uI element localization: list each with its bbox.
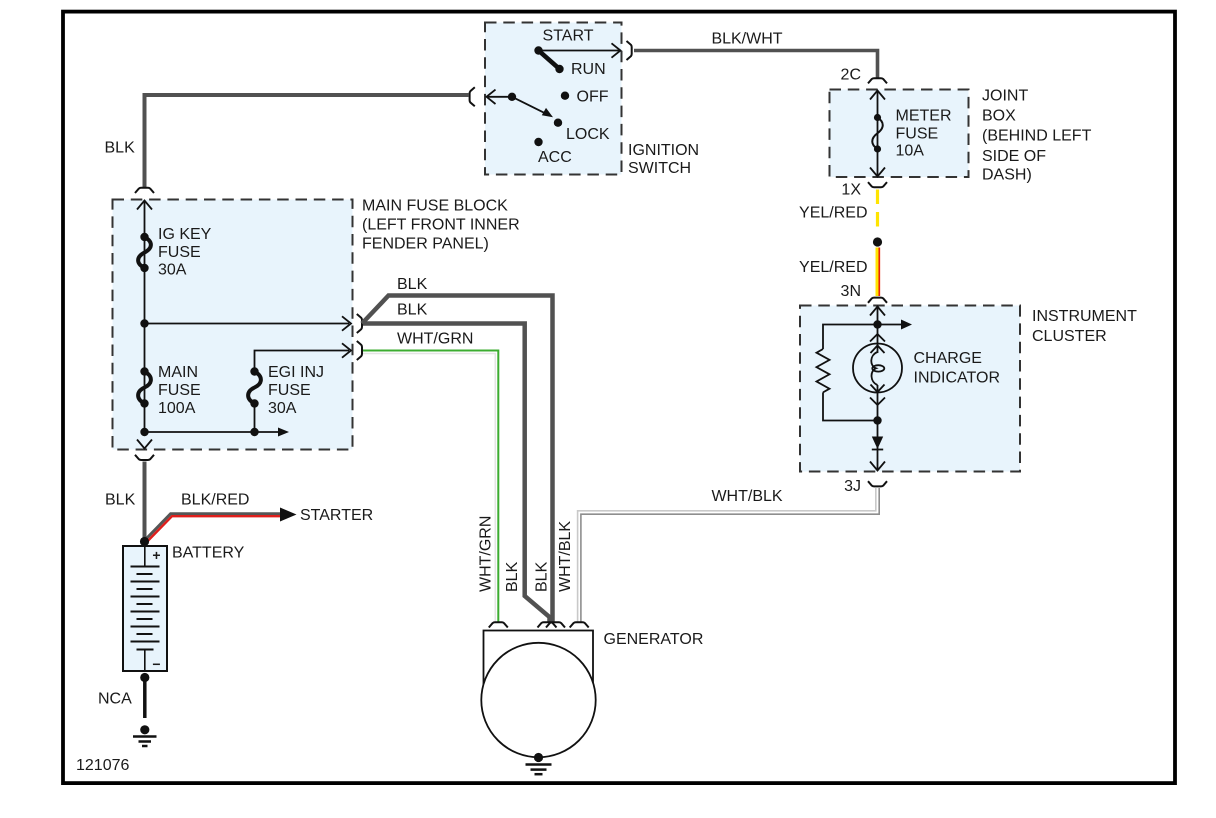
svg-text:3N: 3N <box>841 283 861 300</box>
EGI fuse lower lead <box>254 404 256 433</box>
svg-text:−: − <box>152 656 160 672</box>
junction node <box>873 416 881 424</box>
svg-text:ACC: ACC <box>538 149 572 166</box>
wire BLK/WHT <box>634 51 878 78</box>
svg-text:STARTER: STARTER <box>300 507 373 524</box>
svg-text:SIDE OF: SIDE OF <box>982 148 1046 165</box>
svg-text:WHT/BLK: WHT/BLK <box>711 488 782 505</box>
junction node battery top <box>140 537 149 546</box>
branch to resistor <box>823 325 878 350</box>
svg-text:IG KEY: IG KEY <box>158 226 212 243</box>
fuse METER 10A <box>874 114 881 121</box>
resistor <box>817 349 830 392</box>
connector generator WHT/BLK <box>570 622 589 627</box>
connector cup below fuse block <box>135 455 154 460</box>
svg-text:INSTRUMENT: INSTRUMENT <box>1032 308 1137 325</box>
svg-text:BLK: BLK <box>105 492 136 509</box>
svg-text:1X: 1X <box>841 182 861 199</box>
svg-text:2C: 2C <box>841 67 861 84</box>
up arrow at top <box>137 201 152 210</box>
wire BLK 2 <box>363 324 550 623</box>
svg-text:CLUSTER: CLUSTER <box>1032 328 1107 345</box>
charge indicator lamp <box>853 344 902 393</box>
svg-text:+: + <box>152 547 160 563</box>
svg-text:DASH): DASH) <box>982 167 1032 184</box>
svg-text:BOX: BOX <box>982 108 1016 125</box>
arrow to first right connector <box>145 323 350 325</box>
svg-text:MAIN FUSE BLOCK: MAIN FUSE BLOCK <box>362 198 508 215</box>
switch contact START <box>534 46 542 54</box>
battery body <box>123 546 167 671</box>
svg-text:BLK/WHT: BLK/WHT <box>711 31 782 48</box>
wire below lamp <box>877 393 879 471</box>
female connector left of ignition switch <box>470 87 475 106</box>
switch contact LOCK <box>554 119 562 127</box>
svg-text:100A: 100A <box>158 400 196 417</box>
svg-text:BLK: BLK <box>397 302 428 319</box>
svg-text:10A: 10A <box>896 143 925 160</box>
generator circle <box>481 643 595 757</box>
wire BLK <box>145 95 469 187</box>
starter arrow <box>280 508 297 522</box>
wire YEL/RED solid <box>876 248 879 297</box>
wire WHT/BLK <box>578 488 876 622</box>
junction node <box>140 319 148 327</box>
connector generator BLK b <box>546 622 565 627</box>
main fuse block box <box>113 200 353 450</box>
diode <box>872 437 883 450</box>
fuse EGI INJ 30A <box>250 367 258 375</box>
svg-text:METER: METER <box>896 108 952 125</box>
connector female right of fuse block (BLK) <box>357 314 362 333</box>
connector 3J cup <box>868 481 887 486</box>
svg-text:FUSE: FUSE <box>158 382 201 399</box>
wire BLK 1 <box>362 296 553 623</box>
arrow to left connector <box>487 96 512 98</box>
svg-text:IGNITION: IGNITION <box>628 142 699 159</box>
ignition switch box <box>485 23 622 175</box>
svg-text:NCA: NCA <box>98 691 132 708</box>
svg-text:BLK: BLK <box>533 561 550 592</box>
connector 3N hat <box>868 298 887 303</box>
svg-text:BLK/RED: BLK/RED <box>181 492 249 509</box>
svg-text:START: START <box>543 28 594 45</box>
svg-text:JOINT: JOINT <box>982 88 1028 105</box>
svg-text:FENDER PANEL): FENDER PANEL) <box>362 236 489 253</box>
connector 2E hat top of fuse block <box>135 188 154 193</box>
arrow to right connector <box>539 50 621 52</box>
svg-text:30A: 30A <box>268 400 297 417</box>
svg-text:(LEFT FRONT INNER: (LEFT FRONT INNER <box>362 217 520 234</box>
fuse MAIN 100A <box>140 367 148 375</box>
diagonal arrow to LOCK <box>512 97 549 115</box>
svg-text:FUSE: FUSE <box>896 126 939 143</box>
connector female right of fuse block (WHT/GRN) <box>357 341 362 360</box>
down arrow at bottom <box>870 462 885 471</box>
connector generator BLK a <box>538 622 557 627</box>
wire WHT/GRN <box>363 354 495 622</box>
connector 2C hat <box>868 78 887 83</box>
svg-text:GENERATOR: GENERATOR <box>604 631 704 648</box>
chevron above lamp <box>870 334 885 342</box>
switch contact ACC <box>534 138 542 146</box>
svg-text:OFF: OFF <box>577 89 609 106</box>
svg-text:LOCK: LOCK <box>566 126 610 143</box>
svg-text:BLK: BLK <box>397 276 428 293</box>
wire BLK/RED to starter <box>145 514 282 541</box>
svg-text:WHT/BLK: WHT/BLK <box>557 521 574 592</box>
ground at battery <box>140 725 149 734</box>
internal vertical wire <box>144 201 146 433</box>
switch contact B (left) <box>508 93 516 101</box>
fuse IG KEY 30A <box>140 233 148 241</box>
wire NCA <box>143 678 147 719</box>
internal wire top <box>877 307 879 344</box>
svg-text:CHARGE: CHARGE <box>914 350 982 367</box>
junction node battery bottom <box>140 673 149 682</box>
battery plates <box>144 546 146 567</box>
svg-text:BLK: BLK <box>504 561 521 592</box>
svg-text:SWITCH: SWITCH <box>628 160 691 177</box>
generator box <box>484 631 594 685</box>
female connector right of ignition switch <box>627 41 632 60</box>
wire BLK fuse block to battery <box>143 462 147 542</box>
svg-text:INDICATOR: INDICATOR <box>914 370 1001 387</box>
internal wire <box>877 91 879 177</box>
switch wiper START-RUN <box>539 51 560 70</box>
svg-text:FUSE: FUSE <box>268 382 311 399</box>
instrument cluster box <box>800 306 1020 472</box>
svg-text:BLK: BLK <box>105 140 136 157</box>
svg-text:3J: 3J <box>844 478 861 495</box>
svg-text:30A: 30A <box>158 262 187 279</box>
svg-text:121076: 121076 <box>76 757 129 774</box>
svg-text:BATTERY: BATTERY <box>172 545 245 562</box>
svg-text:WHT/GRN: WHT/GRN <box>397 331 473 348</box>
svg-text:FUSE: FUSE <box>158 244 201 261</box>
svg-text:YEL/RED: YEL/RED <box>799 259 867 276</box>
wire YEL/RED dashed <box>876 190 879 230</box>
svg-text:(BEHIND LEFT: (BEHIND LEFT <box>982 128 1092 145</box>
down arrow at bottom <box>137 440 152 449</box>
splice node <box>873 237 882 246</box>
branch arrow right <box>878 324 902 326</box>
chevron below lamp <box>870 398 885 406</box>
svg-text:WHT/GRN: WHT/GRN <box>477 516 494 592</box>
joint box <box>830 90 969 178</box>
connector 1X cup <box>868 182 887 187</box>
svg-text:EGI INJ: EGI INJ <box>268 364 324 381</box>
svg-text:MAIN: MAIN <box>158 364 198 381</box>
switch contact OFF <box>561 92 569 100</box>
connector generator WHT/GRN <box>489 622 508 627</box>
svg-text:RUN: RUN <box>571 61 606 78</box>
switch contact RUN <box>555 65 563 73</box>
svg-text:YEL/RED: YEL/RED <box>799 205 867 222</box>
junction node <box>873 320 881 328</box>
arrow from EGI fuse to second right connector <box>255 351 350 372</box>
ground at generator <box>534 753 543 762</box>
bottom junction row with arrow <box>145 431 279 433</box>
